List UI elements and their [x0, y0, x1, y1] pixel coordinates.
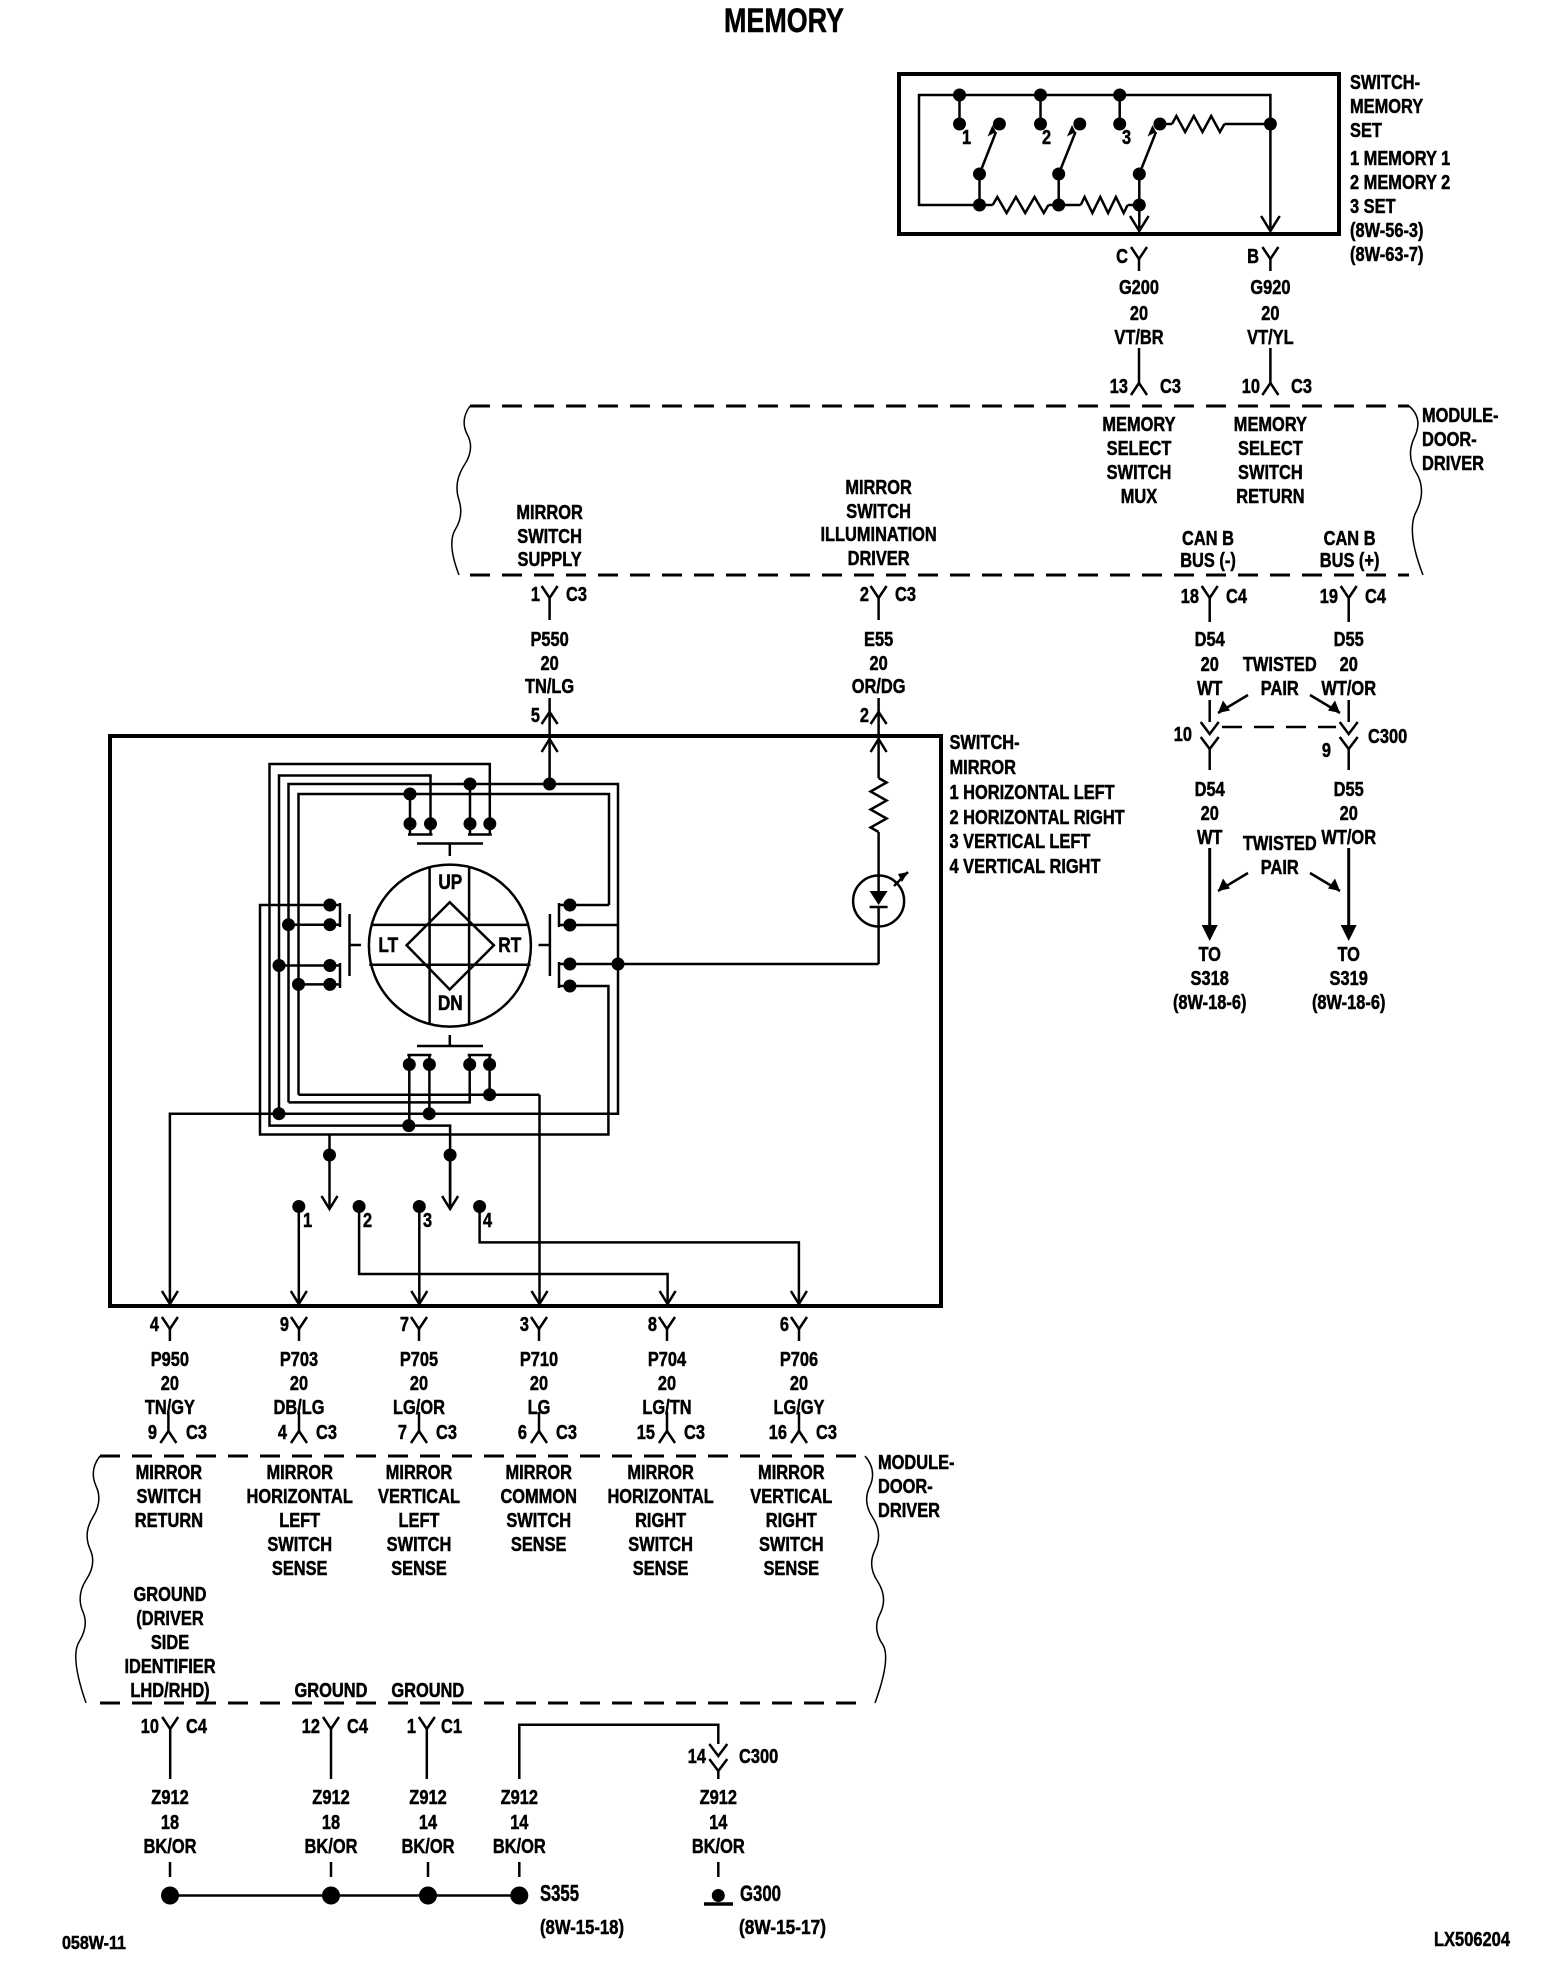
svg-text:C3: C3 [1160, 376, 1181, 398]
svg-text:MEMORY: MEMORY [1102, 414, 1176, 436]
svg-text:2: 2 [1042, 127, 1051, 149]
svg-text:1: 1 [407, 1716, 416, 1738]
svg-text:1: 1 [303, 1210, 312, 1232]
svg-text:WT: WT [1197, 827, 1223, 849]
svg-text:DRIVER: DRIVER [878, 1500, 940, 1522]
svg-text:DN: DN [438, 992, 463, 1015]
svg-text:DOOR-: DOOR- [878, 1476, 933, 1498]
svg-text:SWITCH-: SWITCH- [1350, 72, 1420, 94]
svg-text:SENSE: SENSE [272, 1558, 328, 1580]
svg-text:C3: C3 [684, 1422, 705, 1444]
svg-text:MIRROR: MIRROR [266, 1462, 333, 1484]
svg-text:2: 2 [860, 705, 869, 727]
svg-text:3: 3 [1122, 127, 1131, 149]
svg-text:10: 10 [141, 1716, 159, 1738]
svg-text:MODULE-: MODULE- [878, 1452, 955, 1474]
svg-text:14: 14 [510, 1812, 529, 1834]
svg-text:GROUND: GROUND [295, 1680, 368, 1702]
svg-text:20: 20 [790, 1373, 808, 1395]
svg-text:Z912: Z912 [312, 1787, 349, 1809]
svg-text:1 HORIZONTAL LEFT: 1 HORIZONTAL LEFT [950, 782, 1115, 804]
svg-text:(8W-18-6): (8W-18-6) [1173, 992, 1247, 1014]
svg-text:SWITCH: SWITCH [1238, 462, 1303, 484]
svg-text:7: 7 [398, 1422, 407, 1444]
svg-text:C1: C1 [441, 1716, 462, 1738]
svg-text:MIRROR: MIRROR [505, 1462, 572, 1484]
svg-text:9: 9 [280, 1314, 289, 1336]
svg-text:MUX: MUX [1121, 486, 1158, 508]
svg-text:2: 2 [363, 1210, 372, 1232]
svg-text:BK/OR: BK/OR [144, 1836, 197, 1858]
svg-text:LG/OR: LG/OR [393, 1397, 445, 1419]
svg-text:P710: P710 [520, 1349, 558, 1371]
svg-text:SELECT: SELECT [1238, 438, 1303, 460]
svg-text:4 VERTICAL RIGHT: 4 VERTICAL RIGHT [950, 856, 1101, 878]
svg-text:C3: C3 [1291, 376, 1312, 398]
svg-text:SWITCH: SWITCH [1107, 462, 1172, 484]
svg-text:CAN B: CAN B [1324, 528, 1376, 550]
svg-text:20: 20 [1340, 803, 1358, 825]
svg-text:SWITCH: SWITCH [267, 1534, 332, 1556]
svg-text:(8W-56-3): (8W-56-3) [1350, 220, 1424, 242]
svg-text:C3: C3 [436, 1422, 457, 1444]
svg-text:HORIZONTAL: HORIZONTAL [607, 1486, 713, 1508]
svg-text:WT/OR: WT/OR [1321, 827, 1376, 849]
svg-text:CAN B: CAN B [1182, 528, 1234, 550]
svg-text:18: 18 [322, 1812, 340, 1834]
svg-text:TO: TO [1198, 944, 1221, 966]
svg-text:8: 8 [648, 1314, 657, 1336]
svg-text:G300: G300 [740, 1881, 781, 1906]
svg-text:C300: C300 [739, 1746, 778, 1768]
svg-text:MIRROR: MIRROR [386, 1462, 453, 1484]
svg-text:LG: LG [528, 1397, 551, 1419]
svg-text:SWITCH: SWITCH [387, 1534, 452, 1556]
svg-text:C4: C4 [347, 1716, 369, 1738]
svg-text:P705: P705 [400, 1349, 438, 1371]
svg-text:12: 12 [302, 1716, 320, 1738]
svg-text:RETURN: RETURN [135, 1510, 203, 1532]
svg-text:LHD/RHD): LHD/RHD) [130, 1680, 209, 1702]
svg-text:TN/GY: TN/GY [145, 1397, 196, 1419]
svg-text:Z912: Z912 [700, 1787, 737, 1809]
svg-text:C3: C3 [316, 1422, 337, 1444]
svg-text:20: 20 [658, 1373, 676, 1395]
svg-text:TO: TO [1337, 944, 1360, 966]
svg-text:C3: C3 [895, 584, 916, 606]
svg-text:(DRIVER: (DRIVER [136, 1608, 204, 1630]
svg-text:3: 3 [520, 1314, 529, 1336]
svg-text:VERTICAL: VERTICAL [378, 1486, 460, 1508]
svg-text:TN/LG: TN/LG [525, 676, 574, 698]
svg-text:20: 20 [870, 653, 888, 675]
svg-text:C300: C300 [1368, 726, 1407, 748]
svg-text:1: 1 [962, 127, 971, 149]
svg-text:9: 9 [1322, 740, 1331, 762]
svg-text:P950: P950 [151, 1349, 189, 1371]
svg-text:MIRROR: MIRROR [845, 477, 912, 499]
svg-text:SWITCH-: SWITCH- [950, 732, 1020, 754]
svg-text:PAIR: PAIR [1261, 857, 1299, 879]
svg-text:DB/LG: DB/LG [274, 1397, 325, 1419]
svg-text:BUS (+): BUS (+) [1320, 550, 1380, 572]
svg-text:LEFT: LEFT [399, 1510, 440, 1532]
svg-text:18: 18 [1181, 586, 1199, 608]
svg-text:20: 20 [1130, 303, 1148, 325]
svg-text:MIRROR: MIRROR [516, 502, 583, 524]
svg-text:LEFT: LEFT [279, 1510, 320, 1532]
svg-text:VT/YL: VT/YL [1247, 327, 1294, 349]
svg-text:(8W-15-18): (8W-15-18) [540, 1917, 624, 1939]
svg-text:OR/DG: OR/DG [852, 676, 906, 698]
svg-text:RIGHT: RIGHT [766, 1510, 817, 1532]
svg-text:3 VERTICAL LEFT: 3 VERTICAL LEFT [950, 831, 1091, 853]
svg-text:SIDE: SIDE [151, 1632, 189, 1654]
svg-text:14: 14 [688, 1746, 707, 1768]
svg-text:4: 4 [150, 1314, 160, 1336]
svg-text:DRIVER: DRIVER [848, 548, 910, 570]
svg-text:10: 10 [1174, 724, 1192, 746]
svg-text:G920: G920 [1250, 277, 1290, 299]
svg-text:C3: C3 [816, 1422, 837, 1444]
svg-text:BK/OR: BK/OR [692, 1836, 745, 1858]
svg-text:MEMORY: MEMORY [1234, 414, 1308, 436]
svg-text:20: 20 [1261, 303, 1279, 325]
svg-text:SENSE: SENSE [633, 1558, 689, 1580]
svg-text:ILLUMINATION: ILLUMINATION [820, 524, 936, 546]
svg-text:RETURN: RETURN [1236, 486, 1304, 508]
svg-text:20: 20 [541, 653, 559, 675]
svg-text:RIGHT: RIGHT [635, 1510, 686, 1532]
svg-text:9: 9 [148, 1422, 157, 1444]
svg-text:(8W-15-17): (8W-15-17) [739, 1917, 826, 1939]
svg-text:HORIZONTAL: HORIZONTAL [247, 1486, 353, 1508]
svg-text:LG/TN: LG/TN [642, 1397, 691, 1419]
svg-text:LT: LT [378, 934, 398, 957]
svg-text:2: 2 [860, 584, 869, 606]
svg-text:IDENTIFIER: IDENTIFIER [124, 1656, 216, 1678]
svg-text:C4: C4 [186, 1716, 208, 1738]
svg-text:10: 10 [1242, 376, 1260, 398]
svg-text:VERTICAL: VERTICAL [750, 1486, 832, 1508]
svg-text:MEMORY: MEMORY [724, 2, 844, 40]
svg-text:WT/OR: WT/OR [1321, 678, 1376, 700]
svg-text:C: C [1116, 246, 1128, 268]
svg-text:20: 20 [410, 1373, 428, 1395]
svg-text:3 SET: 3 SET [1350, 196, 1396, 218]
svg-text:14: 14 [419, 1812, 438, 1834]
svg-text:MIRROR: MIRROR [627, 1462, 694, 1484]
svg-text:D54: D54 [1195, 629, 1226, 651]
svg-text:MIRROR: MIRROR [136, 1462, 203, 1484]
svg-text:14: 14 [709, 1812, 728, 1834]
svg-text:1 MEMORY 1: 1 MEMORY 1 [1350, 148, 1450, 170]
svg-text:TWISTED: TWISTED [1243, 654, 1317, 676]
svg-text:S355: S355 [540, 1880, 579, 1906]
svg-text:SET: SET [1350, 120, 1382, 142]
svg-text:Z912: Z912 [409, 1787, 446, 1809]
svg-text:13: 13 [1110, 376, 1128, 398]
svg-text:20: 20 [530, 1373, 548, 1395]
svg-text:18: 18 [161, 1812, 179, 1834]
svg-text:COMMON: COMMON [500, 1486, 577, 1508]
svg-text:SWITCH: SWITCH [759, 1534, 824, 1556]
svg-text:P706: P706 [780, 1349, 818, 1371]
svg-text:D54: D54 [1195, 779, 1226, 801]
svg-text:20: 20 [1340, 654, 1358, 676]
svg-text:D55: D55 [1334, 629, 1364, 651]
svg-text:SWITCH: SWITCH [628, 1534, 693, 1556]
svg-text:7: 7 [400, 1314, 409, 1336]
svg-text:BK/OR: BK/OR [402, 1836, 455, 1858]
svg-text:UP: UP [438, 871, 462, 894]
svg-text:P703: P703 [280, 1349, 318, 1371]
svg-text:GROUND: GROUND [391, 1680, 464, 1702]
svg-text:Z912: Z912 [151, 1787, 188, 1809]
svg-text:(8W-18-6): (8W-18-6) [1312, 992, 1386, 1014]
svg-text:DOOR-: DOOR- [1422, 429, 1477, 451]
svg-text:C3: C3 [186, 1422, 207, 1444]
svg-text:6: 6 [780, 1314, 789, 1336]
svg-text:MIRROR: MIRROR [758, 1462, 825, 1484]
svg-text:C4: C4 [1226, 586, 1248, 608]
svg-text:SELECT: SELECT [1107, 438, 1172, 460]
svg-text:VT/BR: VT/BR [1114, 327, 1164, 349]
svg-text:PAIR: PAIR [1261, 678, 1299, 700]
svg-text:S319: S319 [1330, 968, 1368, 990]
svg-text:DRIVER: DRIVER [1422, 453, 1484, 475]
svg-text:SWITCH: SWITCH [137, 1486, 202, 1508]
svg-text:D55: D55 [1334, 779, 1364, 801]
svg-text:SWITCH: SWITCH [517, 526, 582, 548]
svg-text:RT: RT [498, 934, 521, 957]
svg-text:4: 4 [278, 1422, 288, 1444]
svg-text:SUPPLY: SUPPLY [518, 549, 583, 571]
svg-text:Z912: Z912 [501, 1787, 538, 1809]
svg-text:G200: G200 [1119, 277, 1159, 299]
svg-text:4: 4 [483, 1210, 493, 1232]
svg-text:LG/GY: LG/GY [774, 1397, 826, 1419]
svg-text:15: 15 [637, 1422, 655, 1444]
svg-text:B: B [1247, 246, 1259, 268]
svg-text:BUS (-): BUS (-) [1180, 550, 1236, 572]
svg-text:SENSE: SENSE [511, 1534, 567, 1556]
svg-text:P704: P704 [648, 1349, 687, 1371]
svg-text:20: 20 [161, 1373, 179, 1395]
svg-text:SENSE: SENSE [391, 1558, 447, 1580]
svg-text:20: 20 [1201, 654, 1219, 676]
svg-text:SWITCH: SWITCH [846, 501, 911, 523]
svg-text:3: 3 [423, 1210, 432, 1232]
svg-text:BK/OR: BK/OR [305, 1836, 358, 1858]
svg-text:WT: WT [1197, 678, 1223, 700]
svg-text:E55: E55 [864, 629, 893, 651]
svg-text:P550: P550 [530, 629, 568, 651]
svg-text:5: 5 [531, 705, 540, 727]
svg-text:MEMORY: MEMORY [1350, 96, 1424, 118]
svg-text:SWITCH: SWITCH [506, 1510, 571, 1532]
svg-text:C3: C3 [566, 584, 587, 606]
svg-text:6: 6 [518, 1422, 527, 1444]
svg-text:16: 16 [769, 1422, 787, 1444]
svg-text:2 MEMORY 2: 2 MEMORY 2 [1350, 172, 1450, 194]
svg-text:C4: C4 [1365, 586, 1387, 608]
svg-text:20: 20 [290, 1373, 308, 1395]
svg-text:MIRROR: MIRROR [950, 757, 1017, 779]
svg-text:058W-11: 058W-11 [62, 1933, 126, 1953]
svg-text:GROUND: GROUND [134, 1584, 207, 1606]
svg-text:MODULE-: MODULE- [1422, 405, 1499, 427]
svg-text:TWISTED: TWISTED [1243, 833, 1317, 855]
svg-text:BK/OR: BK/OR [493, 1836, 546, 1858]
svg-text:1: 1 [531, 584, 540, 606]
svg-text:2 HORIZONTAL RIGHT: 2 HORIZONTAL RIGHT [950, 807, 1125, 829]
svg-text:20: 20 [1201, 803, 1219, 825]
svg-text:(8W-63-7): (8W-63-7) [1350, 244, 1424, 266]
svg-text:S318: S318 [1191, 968, 1229, 990]
svg-text:SENSE: SENSE [764, 1558, 820, 1580]
svg-text:C3: C3 [556, 1422, 577, 1444]
svg-text:19: 19 [1320, 586, 1338, 608]
svg-text:LX506204: LX506204 [1434, 1929, 1511, 1951]
